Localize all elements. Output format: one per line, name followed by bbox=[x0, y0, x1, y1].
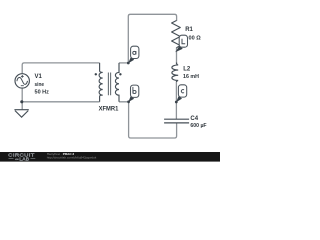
voltage source V1 bbox=[15, 74, 29, 88]
transformer XFMR1 primary winding bbox=[99, 63, 103, 102]
wire: primary top rail from V1 to XFMR1 bbox=[22, 63, 99, 74]
wire: R1 bottom to L2 top bbox=[176, 48, 178, 65]
resistor R1 bbox=[172, 21, 181, 48]
inductor L2 bbox=[172, 63, 178, 83]
svg-text:50 Hz: 50 Hz bbox=[35, 89, 49, 95]
junction dot node c bbox=[175, 101, 178, 104]
svg-text:http;∕∕circuitlab.com∕c∕b6q942: http;∕∕circuitlab.com∕c∕b6q942pgwduk bbox=[47, 156, 97, 160]
svg-text:XFMR1: XFMR1 bbox=[99, 107, 119, 113]
svg-text:600 µF: 600 µF bbox=[190, 123, 207, 129]
junction dot at ground node bbox=[20, 100, 23, 103]
primary polarity dot bbox=[95, 73, 97, 75]
junction dot node a bbox=[127, 62, 130, 65]
svg-text:V1: V1 bbox=[35, 74, 43, 80]
node c flag bbox=[176, 96, 182, 103]
svg-text:16 mH: 16 mH bbox=[183, 74, 199, 80]
svg-text:R1: R1 bbox=[185, 27, 193, 33]
svg-text:L2: L2 bbox=[183, 67, 191, 73]
ground bbox=[14, 110, 28, 118]
transformer XFMR1 secondary winding bbox=[115, 63, 119, 102]
svg-text:∾LAB: ∾LAB bbox=[15, 156, 30, 161]
transformer core bbox=[108, 73, 110, 96]
wire: secondary bottom jog to node b junction bbox=[119, 102, 177, 138]
svg-text:C4: C4 bbox=[190, 116, 198, 122]
node b flag bbox=[128, 96, 134, 102]
wire: secondary top jog to node a junction bbox=[119, 62, 128, 64]
wire: top rail to R1 bbox=[128, 14, 176, 63]
junction dot node b bbox=[127, 100, 130, 103]
wire: L2 bottom to C4 top bbox=[175, 82, 177, 120]
node L flag bbox=[175, 46, 183, 52]
secondary polarity dot bbox=[119, 73, 121, 75]
capacitor C4 bbox=[164, 119, 189, 123]
svg-text:00 Ω: 00 Ω bbox=[189, 35, 202, 41]
node a flag bbox=[128, 57, 134, 64]
footer bar bbox=[0, 152, 220, 162]
wire: primary bottom rail from ground junction to XFMR1 bbox=[22, 88, 99, 109]
svg-text:sine: sine bbox=[35, 82, 45, 88]
